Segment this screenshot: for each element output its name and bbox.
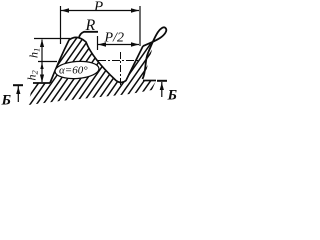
- svg-text:Р: Р: [93, 0, 103, 15]
- svg-text:Б: Б: [1, 93, 12, 109]
- svg-text:R: R: [85, 17, 96, 34]
- svg-text:Б: Б: [167, 88, 178, 104]
- svg-text:Р/2: Р/2: [104, 31, 124, 46]
- svg-text:α=60°: α=60°: [59, 65, 88, 77]
